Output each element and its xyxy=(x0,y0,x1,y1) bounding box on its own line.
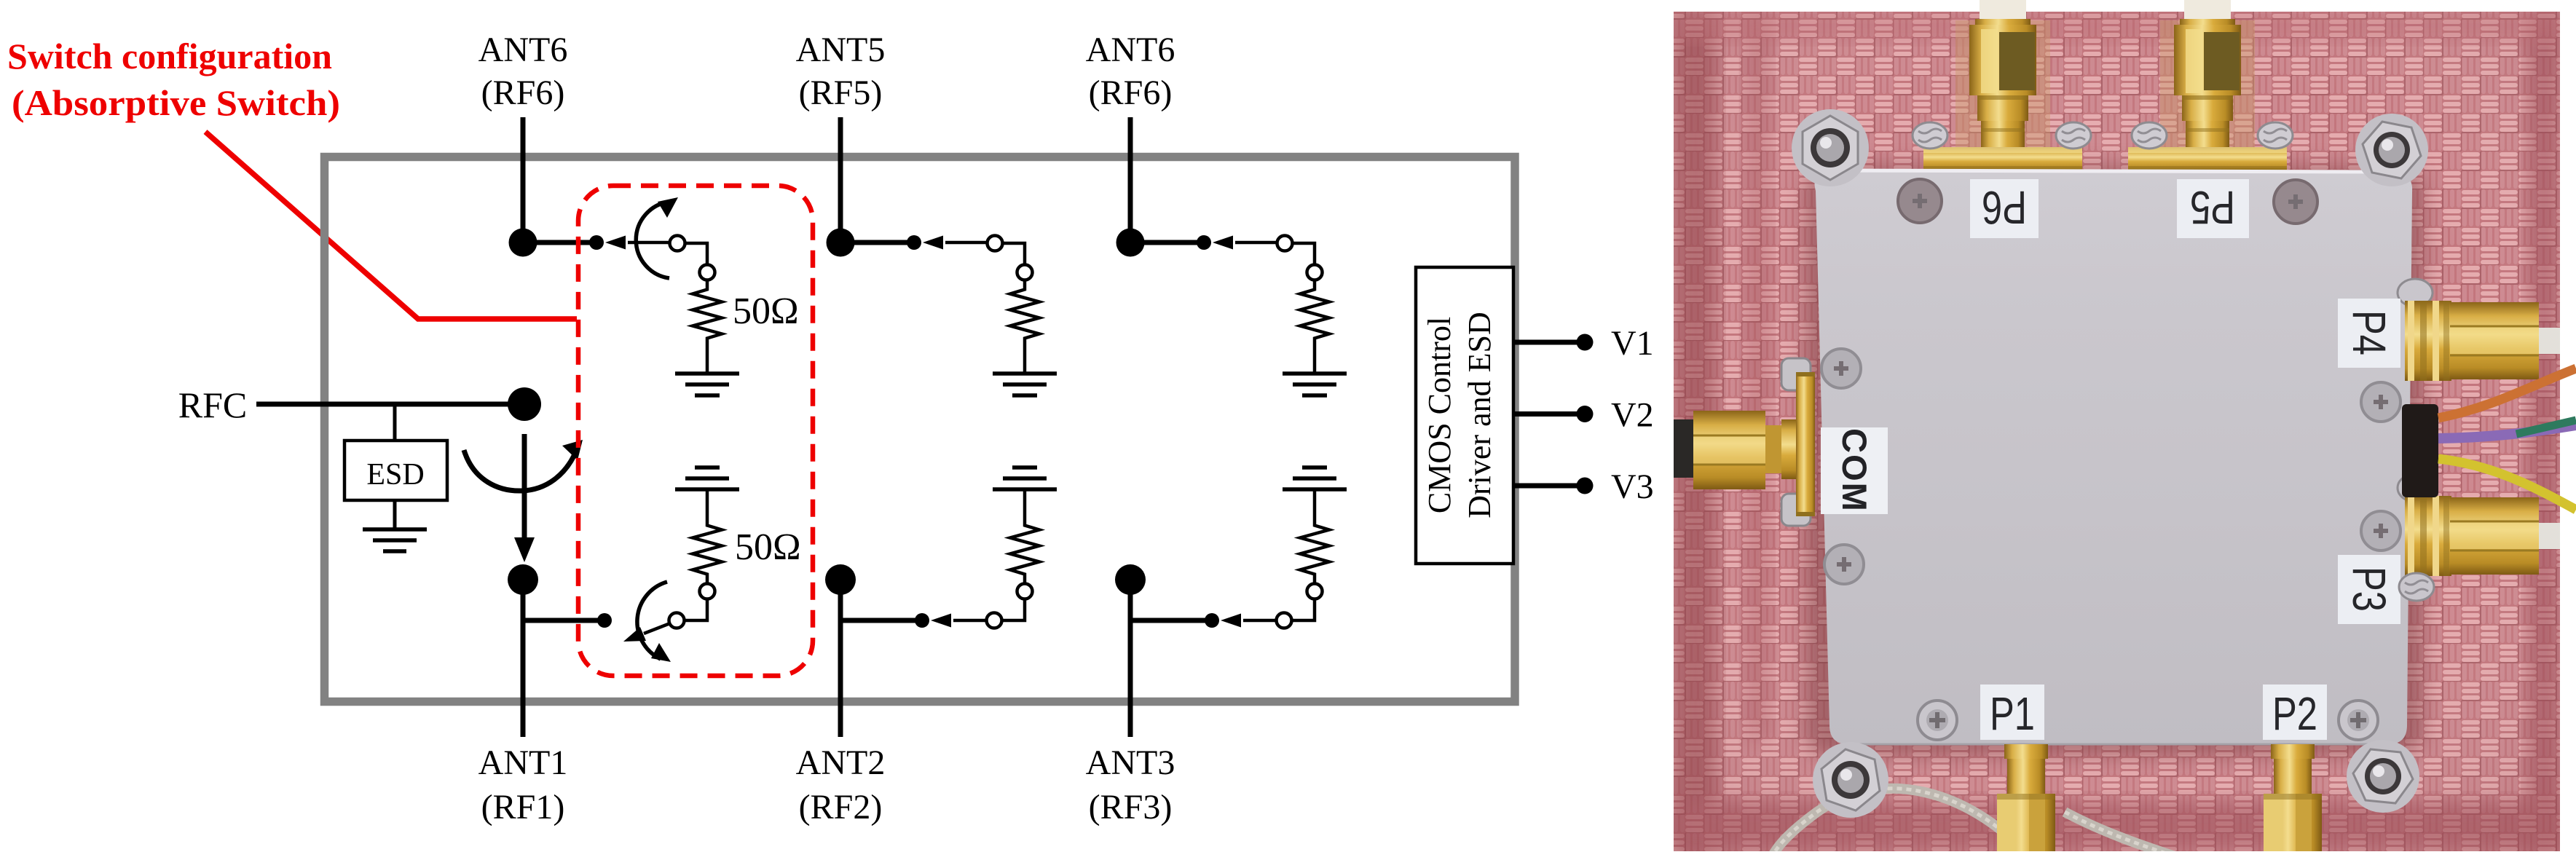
svg-text:ANT1: ANT1 xyxy=(478,743,568,782)
switch pivot pole bottom3 xyxy=(1277,613,1292,628)
value label 50ohm top xyxy=(733,291,799,332)
ground top3 xyxy=(1283,374,1347,395)
throw contact dot bottom1 xyxy=(597,613,612,628)
photo corner hex bolt bottom right xyxy=(2347,740,2419,813)
CMOS control driver block xyxy=(1416,267,1513,564)
switch arm with arrowhead bottom2 xyxy=(931,614,986,628)
photo screw washer top edge x2951 xyxy=(2132,122,2167,149)
wire pivot to termination bottom2 xyxy=(1002,599,1025,621)
annotation leader line xyxy=(205,132,577,319)
svg-text:ANT6: ANT6 xyxy=(478,31,568,69)
photo label sticker COM xyxy=(1821,427,1888,514)
photo control cable block xyxy=(2402,404,2438,497)
switch arm with arrowhead top3 xyxy=(1213,236,1277,250)
switch pivot pole bottom2 xyxy=(987,613,1002,628)
svg-text:(RF6): (RF6) xyxy=(1089,74,1173,112)
photo phillips screw at 3269,552 xyxy=(2361,382,2400,422)
photo screw washer top edge x3124 xyxy=(2258,122,2293,149)
wire ANT1 stub bottom xyxy=(521,580,526,737)
wire ANT6 stub top xyxy=(521,117,526,242)
svg-text:ANT5: ANT5 xyxy=(796,31,886,69)
ground inverted bottom1 xyxy=(675,467,739,489)
svg-text:COM: COM xyxy=(1835,428,1874,513)
ground ESD xyxy=(363,529,427,551)
ground inverted bottom2 xyxy=(993,467,1057,489)
photo wire green xyxy=(2516,420,2576,434)
wire ESD to ground xyxy=(393,500,397,529)
svg-text:V3: V3 xyxy=(1611,467,1654,506)
port label ANT6 (RF6) top xyxy=(1086,31,1175,112)
wire pivot to termination bottom3 xyxy=(1292,599,1315,621)
photo coax cable bottom right xyxy=(2065,812,2210,868)
control label V2 xyxy=(1611,396,1654,435)
switch pivot pole top2 xyxy=(988,236,1003,251)
wire control V1 xyxy=(1515,340,1585,345)
svg-text:50Ω: 50Ω xyxy=(733,291,799,332)
photo fabric fold shading xyxy=(1674,12,2560,851)
node ANT5 top xyxy=(827,229,855,257)
svg-text:RFC: RFC xyxy=(178,384,248,425)
rotation arc arrow RFC xyxy=(464,440,583,491)
wire RFC to ESD xyxy=(393,404,397,441)
series contact circle top2 xyxy=(1017,265,1033,280)
photo plate drop shadow xyxy=(1805,166,2424,756)
series contact circle bottom3 xyxy=(1307,584,1323,599)
wire control V3 xyxy=(1515,484,1585,489)
photo phillips screw at 3238,989 xyxy=(2339,701,2378,740)
svg-text:P6: P6 xyxy=(1982,181,2027,234)
wire ANT3 stub bottom xyxy=(1128,580,1133,737)
node ANT3 bottom xyxy=(1115,564,1146,595)
port label ANT2 (RF2) bottom xyxy=(796,743,886,826)
photo wire purple xyxy=(2438,425,2576,438)
photo phillips screw at 2636,276 xyxy=(1898,179,1942,223)
svg-text:Driver and ESD: Driver and ESD xyxy=(1462,312,1497,518)
svg-text:V1: V1 xyxy=(1611,324,1654,363)
photo SMA connector COM left xyxy=(1674,358,1815,526)
switch arm with arrowhead bottom3 xyxy=(1221,614,1276,628)
arrow RFC selected path xyxy=(514,434,535,562)
svg-text:(RF2): (RF2) xyxy=(799,788,883,826)
wire ANT5 stub top xyxy=(838,117,843,242)
wire node to throw contact top1 xyxy=(523,240,596,245)
svg-text:(RF6): (RF6) xyxy=(481,74,565,112)
node RFC common xyxy=(508,387,541,421)
rotation arc arrow switch top1 xyxy=(636,197,678,278)
node ANT1 bottom xyxy=(508,564,538,595)
photo screw washer below P3 xyxy=(2399,573,2434,601)
resistor 50ohm termination bottom2 xyxy=(1010,489,1039,584)
series contact circle bottom1 xyxy=(700,584,715,599)
enclosure border xyxy=(325,157,1516,702)
resistor 50ohm termination bottom3 xyxy=(1300,489,1329,584)
wire node to throw contact bottom1 xyxy=(523,618,604,623)
ground top2 xyxy=(993,374,1057,395)
node ANT6 top xyxy=(1116,229,1145,257)
photo SMA connector P5 top xyxy=(2128,0,2287,171)
photo corner hex bolt top left xyxy=(1792,109,1869,186)
photo SMA connector P6 top xyxy=(1923,0,2082,171)
resistor 50ohm termination bottom1 xyxy=(693,489,722,584)
photo phillips screw at 3269,729 xyxy=(2361,511,2400,551)
control label V3 xyxy=(1611,467,1654,506)
series contact circle top1 xyxy=(700,265,715,280)
node ANT6 top xyxy=(509,229,537,257)
wire node to throw contact bottom3 xyxy=(1130,618,1212,623)
node terminal V2 xyxy=(1577,406,1594,422)
series contact circle bottom2 xyxy=(1017,584,1033,599)
photo coax cable bottom left xyxy=(1768,789,2032,868)
node terminal V1 xyxy=(1577,334,1594,351)
photo label sticker P4 xyxy=(2338,299,2400,368)
wire ANT2 stub bottom xyxy=(838,580,843,737)
svg-text:P2: P2 xyxy=(2272,687,2317,740)
photo SMA connector P3 right xyxy=(2398,474,2560,576)
photo wire orange xyxy=(2438,368,2576,418)
photo label sticker P3 xyxy=(2338,555,2400,624)
wire node to throw contact top2 xyxy=(840,240,914,245)
svg-text:ANT2: ANT2 xyxy=(796,743,886,782)
wire pivot to termination bottom1 xyxy=(685,599,708,621)
photo label sticker P5 xyxy=(2177,179,2249,238)
port label ANT1 (RF1) bottom xyxy=(478,743,568,826)
photo phillips screw at 2532,775 xyxy=(1824,545,1864,584)
photo SMA connector P4 right xyxy=(2398,279,2560,381)
photo aluminum enclosure plate xyxy=(1815,170,2413,744)
wire pivot to termination top1 xyxy=(685,243,708,265)
throw contact dot bottom3 xyxy=(1205,613,1219,628)
wire ANT6 stub top xyxy=(1128,117,1133,242)
wire pivot to termination top3 xyxy=(1293,243,1315,265)
photo SMA connector P2 bottom xyxy=(2264,744,2322,853)
svg-text:ANT3: ANT3 xyxy=(1086,743,1175,782)
ground inverted bottom3 xyxy=(1283,467,1347,489)
wire node to throw contact bottom2 xyxy=(840,618,922,623)
photo screw washer top edge x2847 xyxy=(2056,122,2091,149)
wire node to throw contact top3 xyxy=(1130,240,1204,245)
photo phillips screw at 3152,277 xyxy=(2274,180,2317,224)
wire RFC input xyxy=(256,402,523,407)
photo phillips screw at 2528,506 xyxy=(1821,349,1861,388)
series contact circle top3 xyxy=(1307,265,1323,280)
photo label sticker P6 xyxy=(1970,179,2039,238)
throw contact dot top1 xyxy=(589,235,604,250)
svg-text:(Absorptive Switch): (Absorptive Switch) xyxy=(12,82,340,123)
photo phillips screw at 2660,989 xyxy=(1918,701,1957,740)
wire pivot to termination top2 xyxy=(1003,243,1025,265)
switch arm with arrowhead top2 xyxy=(923,236,988,250)
switch pivot pole top1 xyxy=(670,236,685,251)
svg-text:ANT6: ANT6 xyxy=(1086,31,1175,69)
switch pivot pole top3 xyxy=(1277,236,1293,251)
throw contact dot top3 xyxy=(1197,235,1211,250)
svg-text:(RF3): (RF3) xyxy=(1089,788,1173,826)
annotation title xyxy=(7,36,340,123)
port label ANT6 (RF6) top xyxy=(478,31,568,112)
photo corner hex bolt top right xyxy=(2355,114,2428,186)
highlight dashed box absorptive switch xyxy=(578,186,813,676)
svg-text:ESD: ESD xyxy=(366,458,424,492)
svg-text:(RF5): (RF5) xyxy=(799,74,883,112)
photo label sticker P1 xyxy=(1980,684,2044,740)
photo background fabric xyxy=(1674,12,2560,851)
node terminal V3 xyxy=(1577,478,1594,494)
switch pivot pole bottom1 xyxy=(669,613,685,628)
rotation arc arrow switch bottom1 xyxy=(637,582,671,662)
svg-text:V2: V2 xyxy=(1611,396,1654,435)
svg-text:P3: P3 xyxy=(2343,567,2395,612)
svg-text:P4: P4 xyxy=(2343,310,2395,355)
resistor 50ohm termination top3 xyxy=(1300,280,1329,374)
throw contact dot bottom2 xyxy=(915,613,929,628)
photo SMA connector P1 bottom xyxy=(1997,744,2055,853)
ESD block U-ESD xyxy=(344,441,447,500)
value label 50ohm bottom xyxy=(735,526,801,568)
switch arm rotated open with arrowhead bottom1 xyxy=(623,623,670,642)
port label RFC xyxy=(178,384,248,425)
ground top1 xyxy=(675,374,739,395)
throw contact dot top2 xyxy=(907,235,921,250)
photo corner hex bolt bottom left xyxy=(1813,742,1888,818)
photo wire yellow xyxy=(2438,459,2576,510)
switch arm with arrowhead top1 xyxy=(605,236,670,250)
photo label sticker P2 xyxy=(2263,684,2327,740)
svg-text:CMOS Control: CMOS Control xyxy=(1422,317,1457,513)
node ANT2 bottom xyxy=(825,564,856,595)
wire control V2 xyxy=(1515,411,1585,417)
svg-text:Switch configuration: Switch configuration xyxy=(7,36,332,76)
resistor 50ohm termination top2 xyxy=(1010,280,1039,374)
port label ANT5 (RF5) top xyxy=(796,31,886,112)
control label V1 xyxy=(1611,324,1654,363)
svg-text:P1: P1 xyxy=(1990,687,2035,740)
svg-text:(RF1): (RF1) xyxy=(481,788,565,826)
resistor 50ohm termination top1 xyxy=(693,280,722,374)
port label ANT3 (RF3) bottom xyxy=(1086,743,1175,826)
svg-text:50Ω: 50Ω xyxy=(735,526,801,568)
photo screw washer top edge x2650 xyxy=(1913,122,1947,149)
svg-text:P5: P5 xyxy=(2190,181,2235,234)
